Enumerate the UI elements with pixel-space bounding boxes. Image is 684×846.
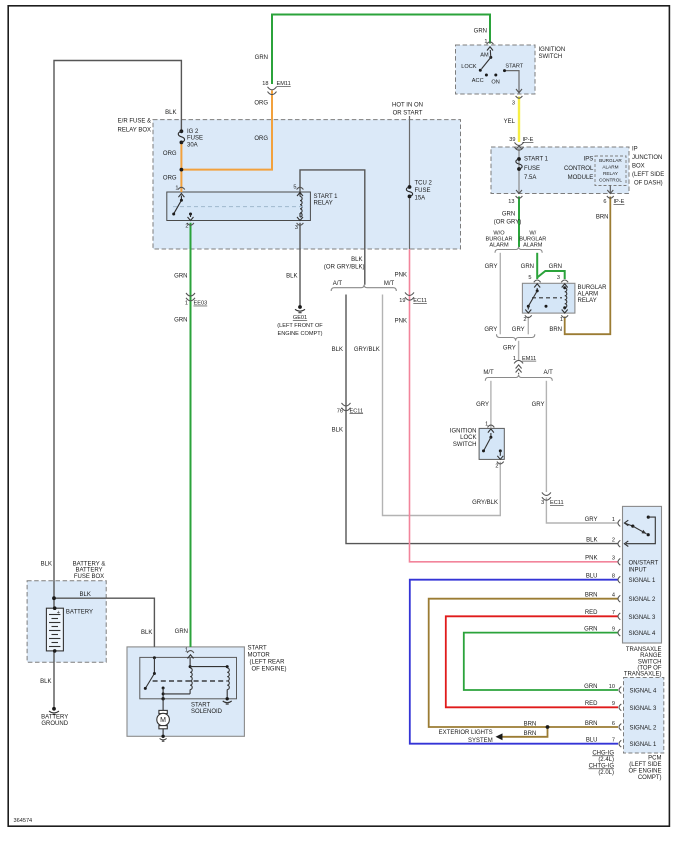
start motor box <box>127 647 244 736</box>
svg-text:3: 3 <box>295 225 298 231</box>
svg-text:GRY/BLK: GRY/BLK <box>472 500 498 506</box>
svg-text:GRN: GRN <box>502 212 515 218</box>
wire BLK battery feed left rail <box>54 61 181 609</box>
svg-text:GRY/BLK: GRY/BLK <box>354 347 380 353</box>
wire GRN transaxle pin 9 to PCM pin 10 <box>464 633 618 690</box>
svg-text:SIGNAL 3: SIGNAL 3 <box>630 706 657 712</box>
arrow exterior lights <box>496 733 503 740</box>
svg-text:15A: 15A <box>415 196 426 202</box>
svg-text:ENGINE COMPT): ENGINE COMPT) <box>277 331 322 337</box>
svg-text:GROUND: GROUND <box>41 721 68 727</box>
svg-text:SIGNAL 2: SIGNAL 2 <box>630 726 657 732</box>
svg-text:3: 3 <box>612 556 615 562</box>
svg-text:2: 2 <box>185 224 188 230</box>
ignition lock switch internals <box>482 425 503 459</box>
transaxle pin cups <box>618 520 620 636</box>
wire GRY w/o burglar alarm branch <box>499 253 501 334</box>
svg-text:GRY: GRY <box>532 402 545 408</box>
svg-text:BLK: BLK <box>332 427 343 433</box>
burglar alarm relay box <box>522 283 575 313</box>
svg-text:HOT IN ON: HOT IN ON <box>392 103 423 109</box>
svg-text:(2.0L): (2.0L) <box>598 770 614 776</box>
svg-text:BRN: BRN <box>524 721 537 727</box>
svg-text:BRN: BRN <box>585 721 598 727</box>
svg-text:1: 1 <box>175 186 178 192</box>
wire BLK battery to ground <box>53 651 55 707</box>
svg-text:ON: ON <box>491 80 499 86</box>
svg-text:(OR GRY/BLK): (OR GRY/BLK) <box>324 265 365 271</box>
ignition switch box <box>456 45 536 94</box>
svg-text:BRN: BRN <box>549 327 562 333</box>
connector EE03 pin 1 <box>186 293 195 301</box>
svg-text:13: 13 <box>508 199 514 205</box>
start motor M symbol <box>157 699 170 741</box>
svg-text:SYSTEM: SYSTEM <box>468 738 493 744</box>
PCM box <box>624 678 664 754</box>
wire BLU transaxle pin 5 to PCM pin 7 <box>410 580 618 744</box>
svg-text:SOLENOID: SOLENOID <box>191 709 223 715</box>
svg-text:GRY: GRY <box>512 327 525 333</box>
ground battery <box>49 707 59 715</box>
pin cup lock switch pin 2 <box>497 462 504 464</box>
start solenoid inner box <box>140 657 237 698</box>
IP junction box <box>491 147 629 194</box>
svg-text:YEL: YEL <box>504 119 516 125</box>
svg-text:GRY: GRY <box>476 402 489 408</box>
svg-text:GRY: GRY <box>484 327 497 333</box>
svg-text:FUSE: FUSE <box>524 166 540 172</box>
svg-text:E/R FUSE &: E/R FUSE & <box>118 119 151 125</box>
wire GRN w/ burglar alarm branch to relay pin 5 <box>536 253 538 279</box>
svg-text:M/T: M/T <box>483 370 494 376</box>
wire BLK relay pin 5 over and down to A/T M/T brace <box>300 170 365 285</box>
connector EM11 pin 18 <box>268 87 277 95</box>
svg-text:GE01: GE01 <box>293 315 307 321</box>
svg-text:BLK: BLK <box>586 537 597 543</box>
svg-text:7: 7 <box>612 738 615 744</box>
brace split W/O W/ burglar alarm <box>495 247 542 253</box>
svg-text:1: 1 <box>612 517 615 523</box>
wire GRN relay pin 5 to pin 3 jumper <box>537 271 565 279</box>
svg-text:1: 1 <box>185 301 188 307</box>
svg-text:76: 76 <box>337 408 343 414</box>
brace split M/T A/T <box>485 375 552 381</box>
svg-text:START 1: START 1 <box>524 157 549 163</box>
pin cup ignition pin 3 <box>516 96 523 98</box>
svg-text:START: START <box>191 703 210 709</box>
junction node ORG <box>180 168 184 172</box>
svg-text:SIGNAL 3: SIGNAL 3 <box>629 615 656 621</box>
chevron + cup IP box bottom pin 13 <box>516 190 522 194</box>
svg-text:GRY: GRY <box>585 517 598 523</box>
brace merge GRY GRY <box>497 334 535 341</box>
svg-text:3: 3 <box>512 101 515 107</box>
svg-text:SIGNAL 1: SIGNAL 1 <box>629 578 656 584</box>
wire ORG branch to EM11 <box>181 91 272 170</box>
svg-text:CHG-IG: CHG-IG <box>592 751 614 757</box>
svg-text:GRY: GRY <box>485 264 498 270</box>
svg-text:BLK: BLK <box>80 592 91 598</box>
svg-text:TRANSAXLE): TRANSAXLE) <box>624 671 662 677</box>
svg-text:PNK: PNK <box>395 272 407 278</box>
fuse TCU 2 15A <box>406 185 412 198</box>
svg-text:PNK: PNK <box>585 556 597 562</box>
svg-text:SWITCH: SWITCH <box>453 442 477 448</box>
svg-text:JUNCTION: JUNCTION <box>632 155 662 161</box>
svg-text:4: 4 <box>612 593 615 599</box>
svg-text:COMPT): COMPT) <box>638 775 662 781</box>
wire TCU2 fuse to box bottom <box>409 196 411 249</box>
svg-text:8: 8 <box>612 574 615 580</box>
battery symbol <box>46 606 63 652</box>
start motor pin 1 cup and chevron <box>187 651 194 653</box>
ignition switch internals <box>479 47 522 93</box>
svg-text:SIGNAL 1: SIGNAL 1 <box>630 742 657 748</box>
E/R fuse &amp; relay box <box>153 120 461 249</box>
svg-text:ORG: ORG <box>254 101 268 107</box>
svg-text:CHTG-IG: CHTG-IG <box>589 764 615 770</box>
svg-text:FUSE BOX: FUSE BOX <box>74 574 104 580</box>
svg-text:19: 19 <box>399 298 405 304</box>
svg-text:1: 1 <box>560 317 563 323</box>
svg-text:BLK: BLK <box>332 347 343 353</box>
wire BLK battery branch to start motor <box>54 598 154 647</box>
svg-text:3: 3 <box>541 500 544 506</box>
svg-text:BLU: BLU <box>586 574 598 580</box>
svg-text:9: 9 <box>612 626 615 632</box>
pin cup ignition pin 1 <box>487 42 494 44</box>
svg-text:ORG: ORG <box>254 136 268 142</box>
svg-text:PNK: PNK <box>395 319 407 325</box>
svg-text:BLU: BLU <box>586 738 598 744</box>
svg-text:1: 1 <box>485 422 488 428</box>
svg-text:BLK: BLK <box>286 274 297 280</box>
svg-text:BRN: BRN <box>524 731 537 737</box>
wire TCU2 fuse feed <box>409 116 411 187</box>
svg-text:6: 6 <box>603 199 606 205</box>
svg-text:CONTROL: CONTROL <box>599 178 622 183</box>
transaxle range switch internals <box>624 516 655 547</box>
svg-text:BLK: BLK <box>141 630 152 636</box>
svg-text:(TOP OF: (TOP OF <box>637 665 661 671</box>
svg-text:2: 2 <box>523 317 526 323</box>
svg-text:ALARM: ALARM <box>602 165 618 170</box>
svg-text:A/T: A/T <box>544 370 554 376</box>
wire GRY relay pin 2 down to merge brace <box>527 317 529 335</box>
svg-text:RELAY BOX: RELAY BOX <box>118 127 151 133</box>
svg-text:IG 2: IG 2 <box>187 129 199 135</box>
svg-text:2: 2 <box>612 537 615 543</box>
svg-text:GRN: GRN <box>549 264 562 270</box>
svg-text:GRN: GRN <box>474 28 487 34</box>
svg-text:LOCK: LOCK <box>460 435 476 441</box>
wire GRY EC11 to transaxle pin 1 <box>546 498 618 524</box>
svg-text:IGNITION: IGNITION <box>539 47 566 53</box>
svg-text:MODULE: MODULE <box>568 175 594 181</box>
svg-text:BLK: BLK <box>41 561 52 567</box>
svg-text:EE03: EE03 <box>194 301 208 307</box>
svg-text:IP-E: IP-E <box>523 137 534 143</box>
svg-text:PCM: PCM <box>648 756 661 762</box>
svg-text:SIGNAL 4: SIGNAL 4 <box>630 689 657 695</box>
svg-text:364574: 364574 <box>14 818 33 824</box>
svg-text:5: 5 <box>293 185 296 191</box>
svg-text:TCU 2: TCU 2 <box>415 181 433 187</box>
svg-text:1: 1 <box>185 648 188 654</box>
svg-text:BURGLAR: BURGLAR <box>578 285 608 291</box>
svg-text:ALARM: ALARM <box>523 243 543 249</box>
svg-text:BRN: BRN <box>596 215 609 221</box>
svg-text:CONTROL: CONTROL <box>564 166 594 172</box>
start solenoid internals <box>144 656 232 704</box>
svg-text:EM11: EM11 <box>277 81 291 87</box>
svg-text:BRN: BRN <box>585 593 598 599</box>
svg-text:RED: RED <box>585 701 598 707</box>
junction node BRN exterior lights <box>546 725 550 729</box>
connector IP-E pin 39 <box>515 142 524 150</box>
svg-text:GRN: GRN <box>175 629 188 635</box>
connector EC11 pin 19 <box>405 292 414 300</box>
wire ignition switch internal START to pin 3 <box>505 71 520 94</box>
svg-text:RELAY: RELAY <box>314 201 333 207</box>
ground GE01 <box>295 305 305 313</box>
wire GRY merged to EM11 <box>518 341 520 361</box>
svg-text:RELAY: RELAY <box>603 171 619 176</box>
svg-text:ORG: ORG <box>163 151 177 157</box>
wire RED transaxle pin 7 to PCM pin 9 <box>446 616 618 707</box>
svg-text:+: + <box>57 610 60 616</box>
wire GRY/BLK lock switch pin 2 loop to M/T brace <box>383 295 501 516</box>
svg-text:1: 1 <box>484 39 487 45</box>
svg-text:IPS: IPS <box>584 157 594 163</box>
wire BRN branch to exterior lights <box>501 727 548 737</box>
svg-text:BATTERY: BATTERY <box>75 568 102 574</box>
svg-text:EM11: EM11 <box>522 356 536 362</box>
svg-text:RANGE: RANGE <box>640 653 661 659</box>
pin cups burglar alarm relay <box>534 280 541 282</box>
svg-text:7: 7 <box>612 610 615 616</box>
svg-text:RELAY: RELAY <box>578 298 597 304</box>
svg-text:10: 10 <box>609 684 615 690</box>
svg-text:2: 2 <box>495 464 498 470</box>
wire YEL ignition pin 3 to IP-E <box>518 97 520 143</box>
wire ORG fuse to relay pin 1 <box>180 142 182 192</box>
svg-text:BATTERY: BATTERY <box>41 715 68 721</box>
svg-text:GRN: GRN <box>584 684 597 690</box>
svg-text:AM: AM <box>480 53 489 59</box>
svg-text:(LEFT REAR: (LEFT REAR <box>250 660 286 666</box>
svg-text:GRY: GRY <box>503 346 516 352</box>
wire GRN EM11 to ignition switch pin 1 <box>272 15 490 85</box>
svg-text:EC11: EC11 <box>413 298 427 304</box>
svg-text:IGNITION: IGNITION <box>450 428 477 434</box>
burglar alarm relay internals <box>525 284 567 313</box>
svg-text:IP: IP <box>632 147 638 153</box>
svg-text:BATTERY: BATTERY <box>66 610 93 616</box>
svg-text:BURGLAR: BURGLAR <box>519 236 546 242</box>
svg-text:ON/START: ON/START <box>629 561 659 567</box>
ignition lock switch box <box>479 428 504 459</box>
svg-text:GRN: GRN <box>521 264 534 270</box>
pin cups start 1 relay <box>178 187 185 189</box>
fuse START 1 7.5A <box>516 157 522 171</box>
svg-text:A/T: A/T <box>333 281 343 287</box>
svg-text:LOCK: LOCK <box>461 64 477 70</box>
wire BLK A/T branch to transaxle pin 2 <box>346 295 618 544</box>
svg-text:SIGNAL 2: SIGNAL 2 <box>629 597 656 603</box>
svg-text:EC11: EC11 <box>550 500 564 506</box>
svg-text:5: 5 <box>528 275 531 281</box>
svg-text:ALARM: ALARM <box>578 292 599 298</box>
wire GRY M/T branch to lock switch pin 1 <box>490 381 492 429</box>
svg-text:GRN: GRN <box>255 55 268 61</box>
battery junction node <box>52 596 56 600</box>
svg-text:ALARM: ALARM <box>489 243 509 249</box>
svg-text:OR START: OR START <box>393 110 423 116</box>
connector EC11 pin 76 <box>342 403 351 411</box>
svg-text:GRN: GRN <box>174 274 187 280</box>
PCM pin cups <box>619 687 621 748</box>
svg-text:BLK: BLK <box>351 257 362 263</box>
svg-text:EC11: EC11 <box>350 408 364 414</box>
transaxle range switch box <box>623 506 662 643</box>
svg-text:EXTERIOR LIGHTS: EXTERIOR LIGHTS <box>439 730 493 736</box>
svg-text:START: START <box>248 646 267 652</box>
wire PNK TCU2 to transaxle pin 3 <box>410 249 619 562</box>
svg-text:INPUT: INPUT <box>629 568 647 574</box>
start 1 relay internals <box>172 170 365 221</box>
svg-text:(2.4L): (2.4L) <box>598 757 614 763</box>
svg-text:BLK: BLK <box>40 679 51 685</box>
wire BRN transaxle pin 4 to PCM pin 6 <box>429 599 618 727</box>
svg-text:M/T: M/T <box>384 281 395 287</box>
svg-text:MOTOR: MOTOR <box>248 653 271 659</box>
wire GRN (OR GRY) IP box to brace <box>518 197 520 248</box>
svg-text:1: 1 <box>513 356 516 362</box>
svg-text:BOX: BOX <box>632 164 645 170</box>
svg-text:START: START <box>505 64 523 70</box>
svg-text:7.5A: 7.5A <box>524 175 536 181</box>
svg-text:(LEFT SIDE: (LEFT SIDE <box>632 172 664 178</box>
svg-text:(OR GRY): (OR GRY) <box>494 219 522 225</box>
svg-text:FUSE: FUSE <box>187 136 203 142</box>
svg-text:(LEFT FRONT OF: (LEFT FRONT OF <box>277 323 323 329</box>
svg-text:39: 39 <box>509 137 515 143</box>
svg-text:18: 18 <box>262 81 268 87</box>
svg-text:BLK: BLK <box>165 110 176 116</box>
svg-text:GRN: GRN <box>584 626 597 632</box>
svg-text:GRN: GRN <box>174 318 187 324</box>
svg-text:IP-E: IP-E <box>614 199 625 205</box>
svg-text:SWITCH: SWITCH <box>539 54 563 60</box>
svg-text:BURGLAR: BURGLAR <box>485 236 512 242</box>
wire BRN relay pin 1 to IP-E 6 <box>565 197 611 335</box>
fuse IG 2 30A <box>178 129 184 144</box>
svg-text:SIGNAL 4: SIGNAL 4 <box>629 631 656 637</box>
svg-text:6: 6 <box>612 721 615 727</box>
chevron into IP box top <box>516 146 522 150</box>
svg-text:9: 9 <box>612 701 615 707</box>
connector EM11 pin 1 with arrows <box>514 360 523 375</box>
connector EC11 pin 3 <box>542 492 551 500</box>
brace split A/T M/T top <box>331 285 396 291</box>
svg-text:3: 3 <box>557 275 560 281</box>
svg-text:ACC: ACC <box>472 78 484 84</box>
wire BLK relay pin3 to GE01 ground <box>299 223 301 306</box>
svg-text:OF DASH): OF DASH) <box>634 181 663 187</box>
svg-text:OF ENGINE): OF ENGINE) <box>252 667 287 673</box>
svg-text:ORG: ORG <box>163 176 177 182</box>
svg-text:BURGLAR: BURGLAR <box>599 158 622 163</box>
svg-text:RED: RED <box>585 610 598 616</box>
wire GRY A/T branch to EC11 <box>545 381 547 492</box>
svg-text:BATTERY &: BATTERY & <box>73 561 106 567</box>
wire GRN relay pin2 to start motor <box>190 223 192 647</box>
svg-text:FUSE: FUSE <box>415 188 431 194</box>
burglar alarm relay control output pin 6 IP-E <box>609 186 611 194</box>
start 1 relay box <box>167 192 311 221</box>
svg-text:OF ENGINE: OF ENGINE <box>628 769 661 775</box>
wire in IP box through fuse <box>518 148 520 194</box>
svg-text:30A: 30A <box>187 142 198 148</box>
burglar alarm relay control inner dashed box <box>595 156 626 186</box>
svg-text:(LEFT SIDE: (LEFT SIDE <box>629 762 661 768</box>
svg-text:START 1: START 1 <box>314 194 339 200</box>
svg-text:M: M <box>160 717 166 724</box>
battery and battery fuse box <box>27 581 106 662</box>
